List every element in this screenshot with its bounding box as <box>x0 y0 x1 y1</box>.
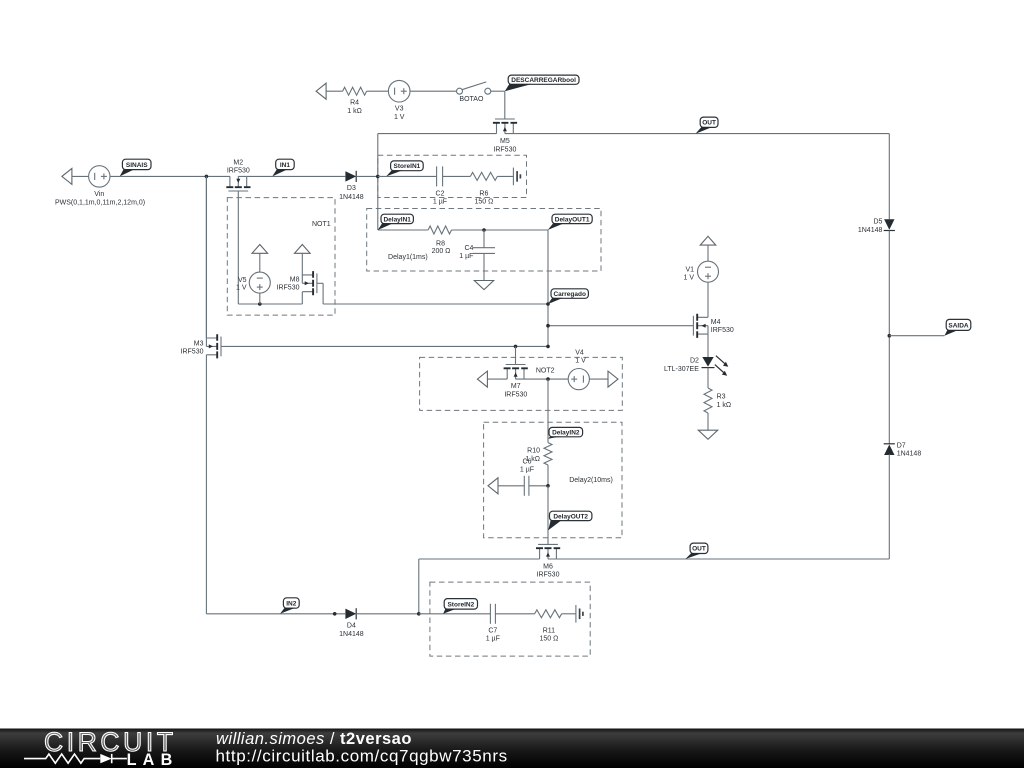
svg-text:M2: M2 <box>233 159 243 166</box>
svg-text:1 V: 1 V <box>683 274 694 281</box>
svg-text:M5: M5 <box>500 138 510 145</box>
svg-text:OUT: OUT <box>702 120 716 127</box>
svg-text:1 V: 1 V <box>394 114 405 121</box>
svg-text:IRF530: IRF530 <box>504 391 527 398</box>
svg-text:IRF530: IRF530 <box>537 572 560 579</box>
svg-text:1N4148: 1N4148 <box>339 194 364 201</box>
svg-text:M3: M3 <box>194 341 204 348</box>
svg-text:IRF530: IRF530 <box>277 284 300 291</box>
svg-text:M8: M8 <box>290 277 300 284</box>
svg-text:IN1: IN1 <box>280 162 291 169</box>
svg-text:R6: R6 <box>479 191 488 198</box>
svg-text:C4: C4 <box>464 245 473 252</box>
svg-text:NOT2: NOT2 <box>536 367 555 374</box>
svg-text:1N4148: 1N4148 <box>858 227 883 234</box>
svg-text:BOTAO: BOTAO <box>459 96 484 103</box>
svg-text:LTL-307EE: LTL-307EE <box>664 366 699 373</box>
svg-text:1N4148: 1N4148 <box>339 631 364 638</box>
svg-text:M4: M4 <box>711 319 721 326</box>
svg-text:1N4148: 1N4148 <box>897 451 922 458</box>
svg-text:Vin: Vin <box>94 191 104 198</box>
svg-text:R11: R11 <box>543 627 555 634</box>
svg-text:D4: D4 <box>347 622 356 629</box>
svg-text:V3: V3 <box>395 106 404 113</box>
svg-text:D2: D2 <box>690 358 699 365</box>
svg-text:DelayOUT2: DelayOUT2 <box>553 513 588 520</box>
svg-text:NOT1: NOT1 <box>312 221 331 228</box>
svg-text:StoreIN1: StoreIN1 <box>394 163 421 170</box>
svg-text:OUT: OUT <box>692 546 706 553</box>
svg-text:IRF530: IRF530 <box>711 327 734 334</box>
svg-text:Delay1(1ms): Delay1(1ms) <box>388 254 428 261</box>
svg-text:D7: D7 <box>897 443 906 450</box>
svg-text:SAIDA: SAIDA <box>948 322 969 329</box>
svg-text:StoreIN2: StoreIN2 <box>447 601 474 608</box>
svg-text:R8: R8 <box>436 241 445 248</box>
svg-text:1 µF: 1 µF <box>459 253 473 260</box>
svg-text:DelayIN2: DelayIN2 <box>552 430 580 437</box>
svg-text:200 Ω: 200 Ω <box>432 248 451 255</box>
svg-text:V5: V5 <box>238 277 247 284</box>
svg-text:1 V: 1 V <box>575 357 586 364</box>
svg-text:C6: C6 <box>523 459 532 466</box>
svg-text:http://circuitlab.com/cq7qgbw7: http://circuitlab.com/cq7qgbw735nrs <box>216 747 508 766</box>
svg-text:DelayOUT1: DelayOUT1 <box>555 216 590 223</box>
svg-text:SINAIS: SINAIS <box>126 162 148 169</box>
svg-text:LAB: LAB <box>127 751 179 768</box>
svg-text:Carregado: Carregado <box>553 291 586 298</box>
svg-text:PWS(0,1,1m,0,11m,2,12m,0): PWS(0,1,1m,0,11m,2,12m,0) <box>55 200 145 207</box>
svg-text:C2: C2 <box>436 191 445 198</box>
svg-text:C7: C7 <box>488 627 497 634</box>
svg-text:1 V: 1 V <box>236 285 247 292</box>
svg-text:DESCARREGARbool: DESCARREGARbool <box>511 77 576 84</box>
svg-text:1 µF: 1 µF <box>486 636 500 643</box>
svg-text:Delay2(10ms): Delay2(10ms) <box>569 477 613 484</box>
svg-text:willian.simoes / t2versao: willian.simoes / t2versao <box>216 730 412 748</box>
svg-text:150 Ω: 150 Ω <box>539 636 558 643</box>
svg-text:M6: M6 <box>543 563 553 570</box>
svg-text:1 µF: 1 µF <box>433 199 447 206</box>
svg-text:R4: R4 <box>350 100 359 107</box>
svg-text:R10: R10 <box>527 447 540 454</box>
svg-text:M7: M7 <box>511 383 521 390</box>
svg-text:IN2: IN2 <box>286 600 297 607</box>
svg-text:R3: R3 <box>717 393 726 400</box>
svg-text:150 Ω: 150 Ω <box>474 199 493 206</box>
svg-text:1 kΩ: 1 kΩ <box>717 402 732 409</box>
svg-text:IRF530: IRF530 <box>181 349 204 356</box>
svg-text:DelayIN1: DelayIN1 <box>383 216 411 223</box>
svg-text:D5: D5 <box>873 219 882 226</box>
svg-text:D3: D3 <box>347 185 356 192</box>
svg-text:1 kΩ: 1 kΩ <box>347 108 362 115</box>
svg-text:V4: V4 <box>575 349 584 356</box>
svg-text:IRF530: IRF530 <box>227 167 250 174</box>
svg-text:V1: V1 <box>685 267 694 274</box>
svg-text:1 µF: 1 µF <box>520 466 534 473</box>
svg-text:IRF530: IRF530 <box>493 146 516 153</box>
